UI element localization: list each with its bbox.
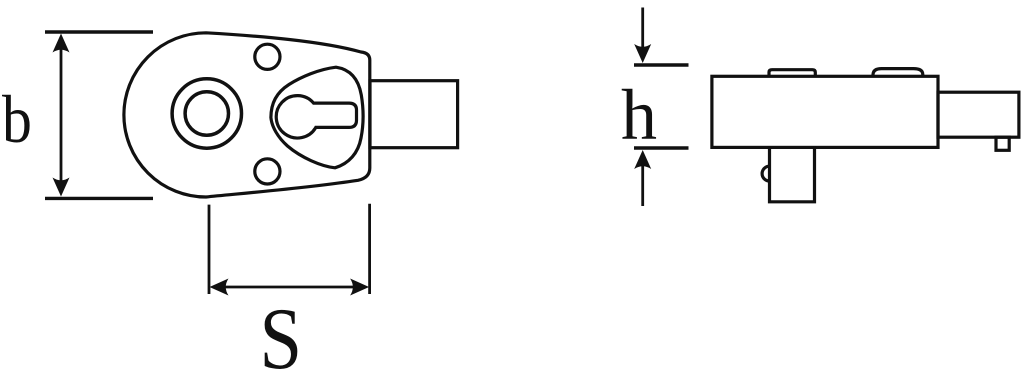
b arrowhead down: [53, 178, 70, 197]
dimension S: [209, 204, 370, 296]
b arrowhead up: [53, 34, 70, 53]
side pin bump: [762, 166, 769, 181]
svg-text:h: h: [621, 75, 657, 155]
square drive tang (top view): [370, 81, 458, 148]
right top tab: [873, 69, 923, 77]
S dimension line: [222, 286, 357, 289]
S arrowhead left: [210, 279, 229, 296]
S right extension line: [368, 204, 371, 294]
lower boss rectangle: [770, 147, 815, 201]
ratchet ring outer circle: [172, 79, 241, 148]
b top tick: [45, 30, 153, 33]
side body rectangle: [712, 76, 938, 147]
ratchet ring inner circle: [185, 92, 228, 135]
left top tab: [769, 70, 815, 77]
b bottom tick: [45, 197, 153, 200]
side tang: [938, 92, 1019, 137]
h top tick: [634, 63, 689, 66]
svg-text:b: b: [2, 81, 32, 156]
svg-text:S: S: [260, 290, 303, 369]
S arrowhead right: [350, 279, 369, 296]
dimension b: [45, 32, 153, 198]
h top shaft: [641, 8, 644, 51]
h bottom tick: [634, 146, 689, 149]
top rivet hole: [255, 44, 280, 69]
h bottom arrowhead up: [634, 150, 651, 169]
keyhole boss outline (pick shape): [271, 67, 363, 168]
tang retaining pin: [996, 137, 1009, 150]
dimension h: [634, 8, 689, 207]
b arrow shaft: [60, 48, 63, 183]
S left extension line: [208, 205, 211, 294]
head outline (top view): [124, 33, 370, 197]
side view: [712, 69, 1019, 202]
keyhole (circle + slot): [276, 96, 356, 138]
bottom rivet hole: [255, 159, 280, 184]
h top arrowhead down: [634, 44, 651, 63]
h bottom shaft: [641, 163, 644, 206]
